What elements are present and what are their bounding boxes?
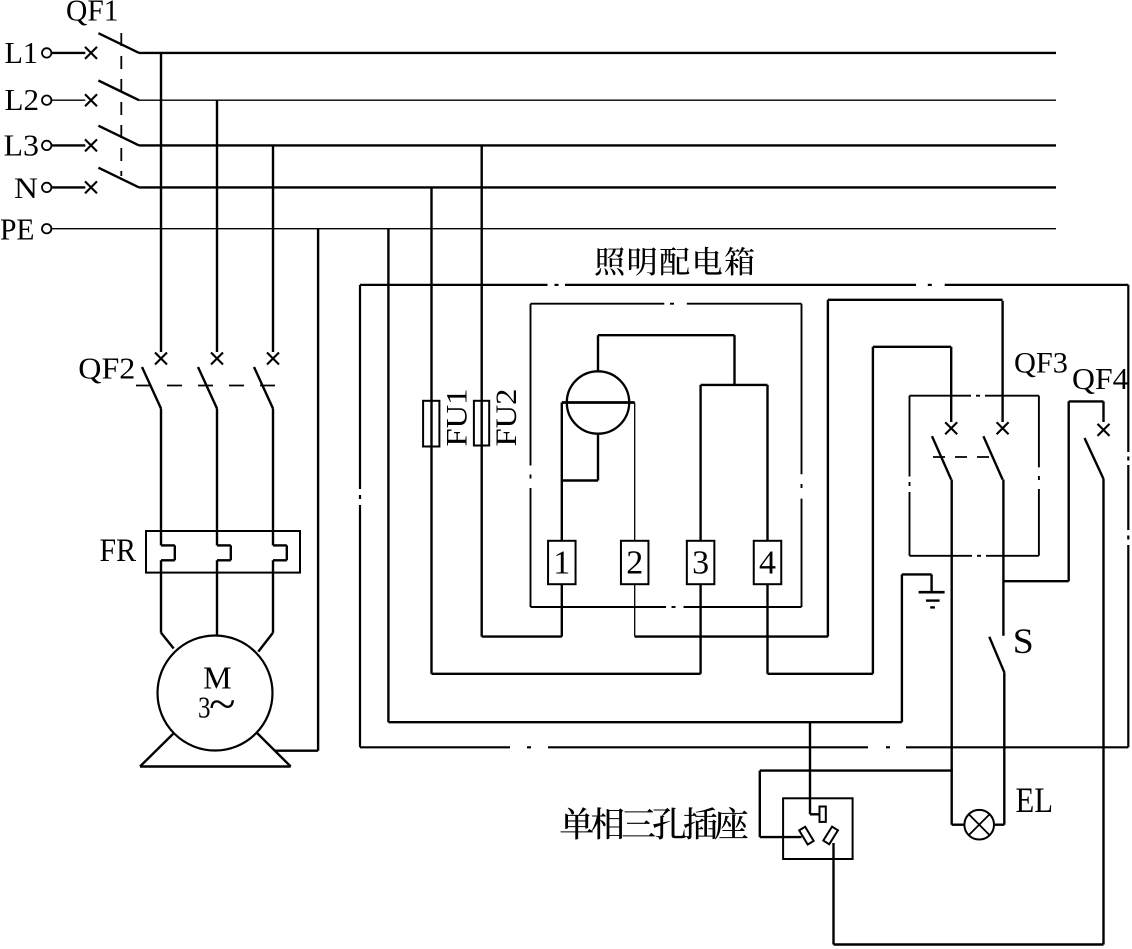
wire socket L output [832,843,834,945]
wire FU2 down [481,446,483,637]
ground symbol [919,591,945,594]
node L1 terminal [42,48,51,57]
wire QF2 pole 1 output to FR [160,409,162,532]
wire FR heater 3 to motor [272,560,274,632]
svg-text:PE: PE [0,212,35,247]
wire QF4 output down [1102,479,1104,945]
thermal relay FR box [146,531,300,573]
breaker QF1 pole L3 blade [98,126,139,146]
breaker QF3 left pole contact [945,422,957,434]
node L3 terminal [42,141,51,150]
wire terminal 1 to FU2 (U-route) [561,584,563,636]
svg-text:1: 1 [553,545,570,582]
svg-text:2: 2 [626,545,643,582]
wire QF2 pole 3 output to FR [272,409,274,532]
distribution box outer boundary right [1127,285,1129,452]
wire PE bus [52,228,1056,230]
distribution box outer boundary bottom [360,746,510,748]
wire branch to QF4 [1003,580,1068,582]
svg-text:FU1: FU1 [441,389,474,447]
wire terminal 3-4 jumper [701,384,768,386]
svg-text:3: 3 [692,545,709,582]
svg-text:QF2: QF2 [78,351,135,386]
svg-text:L3: L3 [4,128,40,163]
breaker QF3 compartment bottom [910,555,973,557]
svg-text:EL: EL [1016,780,1054,820]
wire meter top [597,335,599,371]
wire L3 riser to FU2 [481,145,483,400]
terminal block 1 [548,541,576,584]
label FU1 (rotated) [441,389,474,447]
breaker QF1 pole N blade [98,168,139,188]
breaker QF1 pole L1 blade [98,33,139,53]
breaker QF2 pole 1 blade [142,367,161,409]
breaker QF1 pole L3 contact [85,139,97,151]
wire jumper to terminal 4 [766,385,768,541]
wire PE U-route to ground riser [388,721,902,723]
meter compartment boundary top [531,303,665,305]
node PE terminal [42,224,51,233]
svg-text:~: ~ [209,679,236,729]
meter compartment boundary left [530,304,532,466]
breaker QF3 compartment top [910,395,972,397]
terminal block 2 [621,541,649,584]
svg-text:QF4: QF4 [1072,362,1129,396]
breaker QF2 pole 1 contact [155,353,167,365]
wire meter left to terminal 1 [561,403,563,541]
breaker QF1 pole L1 contact [85,47,97,59]
label FU2 (rotated) [490,389,523,447]
thermal relay FR heater 1 [160,531,162,545]
wire L3 drop to QF2 [272,145,274,352]
breaker QF2 pole 2 blade [198,367,217,409]
lamp EL [964,810,994,840]
node N terminal [42,183,51,192]
breaker QF3 compartment right [1038,396,1040,468]
fuse FU1 [423,401,439,447]
label 单相三孔插座 [560,807,747,839]
breaker QF4 blade [1085,438,1104,479]
wire L2 drop to QF2 [216,100,218,352]
meter bar [562,401,635,404]
svg-text:FR: FR [100,533,137,569]
socket L pin [823,827,838,845]
terminal block 3 [687,541,715,584]
wire N riser to FU1 [430,187,432,400]
motor M base [140,729,178,767]
svg-text:L2: L2 [5,82,40,117]
svg-text:FU2: FU2 [490,389,523,447]
wire N bus [139,186,1056,188]
wire terminal 3 to FU1 (U-route) [699,584,701,674]
motor M circle [158,636,273,751]
breaker QF1 pole N contact [85,181,97,193]
distribution box outer boundary left [359,285,361,489]
wire meter bottom stub [597,434,599,481]
breaker QF1 linkage (dashed) [120,33,122,176]
breaker QF1 pole L2 blade [98,81,139,101]
wire L2 bus [139,99,1056,101]
wire QF3 right pole output down to S [1002,480,1004,636]
breaker QF3 left pole blade [932,436,951,479]
wire lamp right lead [994,824,1004,826]
breaker QF1 pole L2 contact [85,94,97,106]
terminal block 4 [754,541,782,584]
wire PE riser to box [387,229,389,723]
svg-text:S: S [1013,621,1034,661]
svg-text:L1: L1 [5,35,39,70]
meter kWh circle [567,371,629,433]
wire terminal 4 to QF3 left pole riser [766,584,768,674]
svg-text:4: 4 [759,545,776,582]
meter compartment boundary bottom [531,606,667,608]
breaker QF3 compartment left [909,396,911,477]
breaker QF4 contact [1098,424,1110,436]
fuse FU2 [474,401,489,446]
breaker QF2 linkage (dashed) [136,385,288,387]
breaker QF2 pole 3 blade [254,367,273,409]
wire QF3 left pole output down [951,480,953,825]
meter compartment boundary right [801,304,803,475]
switch S blade [989,637,1004,673]
wire FU1 down [430,447,432,674]
breaker QF3 right pole contact [997,422,1009,434]
wire PE branch to socket [809,722,811,814]
socket box [783,798,853,859]
wire ground riser [901,574,903,722]
wire N branch to socket [760,769,953,771]
wire L1 bus [139,52,1056,54]
wire terminal 2 to QF3 right pole riser [634,584,636,636]
svg-text:N: N [14,172,38,205]
wire L1 drop to QF2 [160,53,162,352]
svg-text:QF1: QF1 [66,0,119,28]
breaker QF3 right pole blade [983,436,1002,479]
label 照明配电箱 [595,247,754,276]
socket N pin [799,827,813,845]
wire QF2 pole 2 output to FR [216,409,218,532]
wire meter right to terminal 2 [634,403,636,541]
wire FR heater 2 to motor [216,560,218,636]
wire L3 bus [139,144,1056,146]
wire jumper to terminal 3 [699,385,701,541]
breaker QF2 pole 3 contact [267,353,279,365]
svg-text:QF3: QF3 [1014,346,1068,379]
node L2 terminal [42,96,51,105]
wire S output to lamp [1003,672,1005,824]
thermal relay FR heater 3 [272,531,274,545]
socket PE pin [820,807,826,822]
wire PE to motor frame [317,229,319,751]
breaker QF3 linkage (dashed) [933,456,990,458]
thermal relay FR heater 2 [216,531,218,545]
wire FR heater 1 to motor [160,560,162,632]
wire lamp left lead [952,824,965,826]
distribution box outer boundary top [360,284,548,286]
breaker QF2 pole 2 contact [211,353,223,365]
